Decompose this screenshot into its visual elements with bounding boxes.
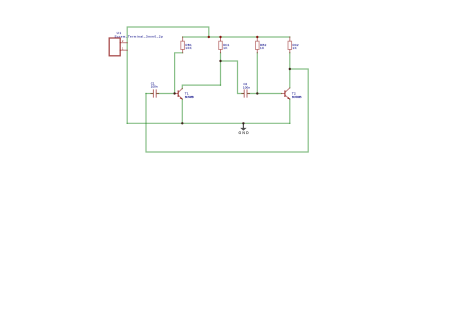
junction RB2 top [256,36,258,38]
label U1 reference [117,31,122,35]
junction T1 emitter on GND rail [181,122,183,124]
svg-text:1K: 1K [223,46,227,50]
svg-text:100n: 100n [151,84,158,88]
wire RB2 bottom vertical [256,53,258,94]
svg-text:BC548B: BC548B [185,95,194,99]
resistor RC2 [288,37,292,53]
wire bottom cross-coupling loop C1 to T2 collector [146,69,308,152]
wire C2 right to RB2/T2 base junction [248,93,282,95]
label U1 value [115,35,164,39]
svg-text:BC548B: BC548B [292,95,302,99]
ground [239,123,250,135]
wire RC2 bottom vertical [289,53,291,69]
junction at VCC feed [208,36,210,38]
wire VCC rail [183,36,290,38]
connector U1 [109,38,127,56]
svg-text:1K: 1K [293,46,297,50]
junction GND stem on rail [242,122,244,124]
wire from U1 pin2 up, top rail, down to VCC rail [127,27,209,123]
resistor RB1 [181,37,185,53]
svg-text:1K: 1K [260,46,264,50]
junction T2 base node [256,92,258,94]
wire RC1 node to T1 collector [182,85,220,89]
wire RB1 bottom jog to T1 base node [175,53,183,94]
junction RC1 bottom node [219,60,221,62]
svg-text:Screw_Terminal_3mm0_2p: Screw_Terminal_3mm0_2p [115,35,164,39]
capacitor C1 [151,89,159,97]
resistor RB2 [256,37,260,53]
svg-text:100n: 100n [243,86,250,90]
wire T2 collector vertical [289,69,291,88]
transistor T1 [175,88,183,99]
wire C1 left lead [146,93,153,95]
wire GND rail [127,122,290,124]
junction T2 collector node [289,68,291,70]
resistor RC1 [219,37,223,53]
wire RC1 node to C2 left [221,61,244,94]
junction T1 base node [173,92,175,94]
svg-text:GND: GND [239,131,250,135]
junction RC1 top [219,36,221,38]
wire T1 emitter to GND rail [181,99,183,123]
transistor T2 [282,88,291,100]
capacitor C2 [242,89,250,97]
wire T2 emitter to GND rail [289,99,291,123]
wire RC1 bottom vertical [220,53,222,85]
svg-text:10K: 10K [185,46,191,50]
wire C1 right to T1 base junction [157,93,175,95]
